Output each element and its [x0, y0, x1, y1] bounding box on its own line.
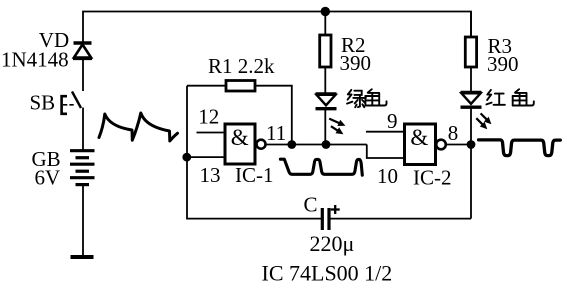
IC-1 output bubble	[257, 140, 266, 149]
LED green	[316, 94, 337, 109]
svg-text:IC 74LS00 1/2: IC 74LS00 1/2	[262, 261, 393, 286]
label plus	[331, 205, 340, 214]
svg-text:SB: SB	[30, 91, 56, 115]
diode VD	[73, 43, 92, 59]
svg-text:6V: 6V	[35, 166, 61, 190]
LED green arrows	[329, 119, 345, 135]
svg-text:390: 390	[487, 52, 519, 76]
wire diode to switch	[82, 59, 84, 92]
svg-text:10: 10	[377, 164, 398, 188]
battery GB	[70, 151, 95, 185]
IC-1 output waveform annotation	[280, 159, 362, 175]
resistor R2	[320, 35, 331, 67]
resistor R1	[226, 81, 255, 92]
IC-2 output bubble	[436, 140, 446, 150]
svg-text:1N4148: 1N4148	[1, 48, 69, 72]
wire battery negative down	[82, 185, 84, 256]
wire left vertical (R1/pin13/bottom rail)	[187, 86, 321, 219]
svg-text:C: C	[304, 193, 318, 217]
node green LED junction	[322, 140, 331, 149]
actuator E shape	[62, 96, 67, 114]
wire LED red to node and down to bottom rail	[470, 107, 472, 218]
svg-text:&: &	[410, 125, 428, 150]
label 绿色 (green)	[347, 89, 387, 107]
wire LED green to node	[324, 109, 326, 145]
svg-text:8: 8	[448, 121, 459, 145]
svg-text:13: 13	[200, 163, 221, 187]
wire IC-2 output	[446, 144, 471, 146]
wire R2 to LED	[324, 67, 326, 94]
node pin13 junction	[182, 153, 191, 162]
sawtooth waveform annotation	[99, 113, 178, 141]
node R1 junction	[287, 140, 296, 149]
wire IC-1 output	[266, 144, 367, 146]
svg-text:&: &	[231, 125, 249, 150]
svg-text:12: 12	[198, 105, 219, 129]
svg-text:R1 2.2k: R1 2.2k	[208, 54, 275, 78]
wire top rail	[83, 12, 471, 44]
resistor R3	[465, 37, 476, 67]
svg-text:390: 390	[340, 51, 372, 75]
blade	[72, 92, 81, 109]
capacitor C	[322, 208, 329, 230]
wire R1 left	[187, 85, 226, 87]
wire R1 right then down to node	[255, 86, 292, 145]
wire switch to battery	[82, 108, 84, 151]
wire R3 branch top	[470, 12, 472, 38]
node top rail R2 junction	[321, 7, 330, 16]
LED red arrows	[476, 113, 491, 129]
wire bottom rail right	[331, 218, 472, 220]
LED red	[461, 92, 482, 107]
nand gate IC-1	[225, 124, 255, 164]
wire pin12	[197, 132, 226, 134]
wire step down to pin10	[367, 145, 405, 159]
pushbutton SB	[62, 92, 81, 114]
IC-2 output waveform annotation	[479, 140, 561, 156]
nand gate IC-2	[405, 124, 436, 165]
svg-text:220μ: 220μ	[310, 231, 355, 256]
wire pin13	[187, 156, 225, 158]
红 silk radical	[487, 90, 491, 100]
label 红色 (red)	[486, 89, 533, 105]
node red LED junction	[467, 140, 476, 149]
wire R3 to LED	[470, 67, 472, 92]
svg-text:9: 9	[387, 109, 398, 133]
红 right part 工	[495, 93, 504, 95]
绿 silk radical	[348, 90, 352, 100]
绿 right part	[354, 91, 361, 95]
wire R2 branch top	[324, 12, 326, 36]
色	[365, 89, 386, 105]
svg-text:IC-2: IC-2	[413, 166, 452, 190]
svg-text:IC-1: IC-1	[235, 163, 274, 187]
svg-text:11: 11	[266, 121, 286, 145]
色	[513, 89, 534, 105]
ground terminal bar	[71, 255, 94, 259]
wire pin9	[366, 131, 405, 133]
